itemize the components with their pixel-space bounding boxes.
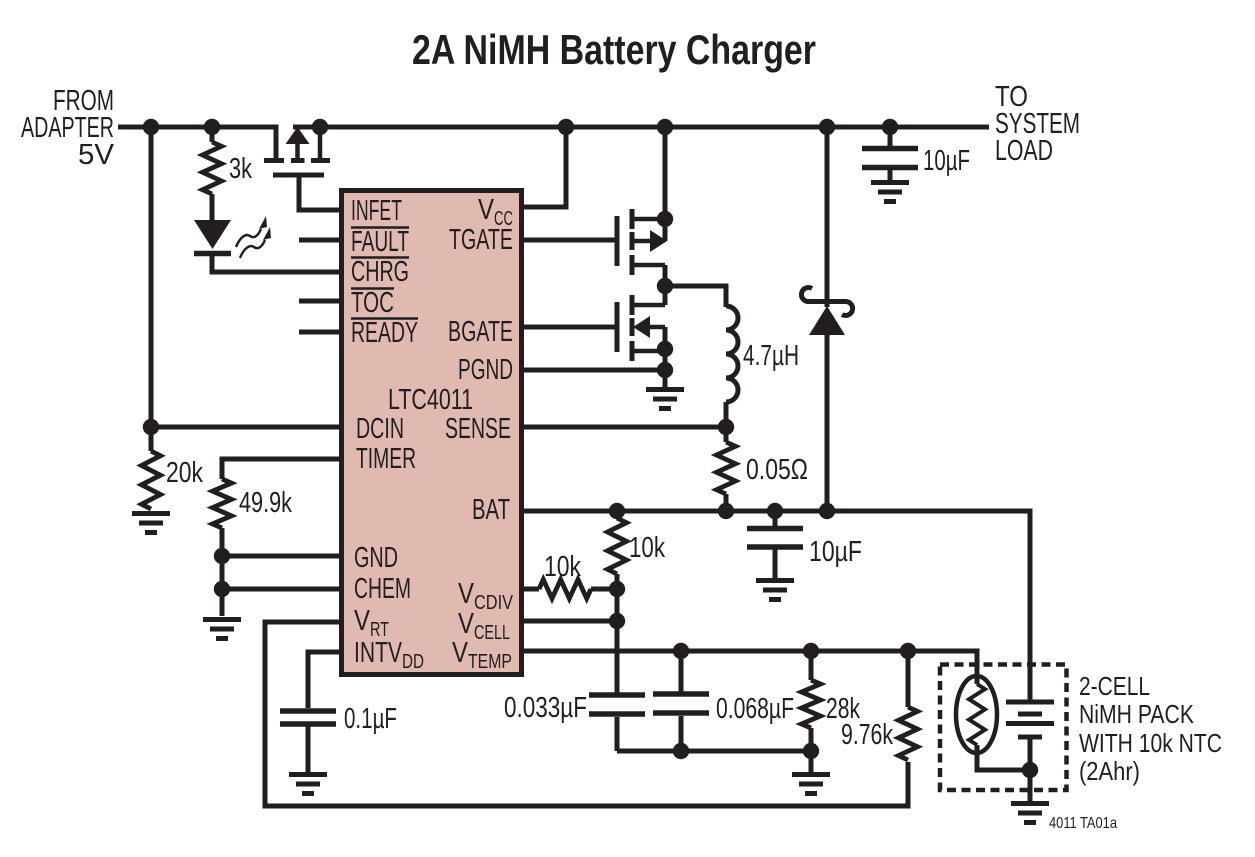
- svg-text:CDIV: CDIV: [474, 592, 514, 614]
- svg-text:9.76k: 9.76k: [841, 719, 893, 751]
- pin label TIMER: [356, 443, 416, 475]
- svg-text:20k: 20k: [166, 457, 203, 489]
- wire TOC stub: [299, 299, 339, 304]
- pin label VTEMP: [452, 637, 512, 673]
- label 0.1uF: [344, 703, 397, 735]
- label 49.9k: [239, 487, 292, 519]
- wire Q1 gate to INFET: [299, 177, 339, 210]
- pin label TGATE: [449, 224, 513, 256]
- pin label GND: [354, 542, 398, 574]
- capacitor 0.068uF: [653, 694, 709, 713]
- svg-text:DCIN: DCIN: [356, 413, 404, 445]
- junction rail 10uF: [882, 119, 898, 135]
- ground 10uF battery: [756, 581, 794, 600]
- wire 0.068uF stubs: [679, 651, 684, 751]
- wire VCC to rail: [523, 127, 566, 207]
- transistor Q1 gate bar: [273, 173, 324, 178]
- svg-text:CHRG: CHRG: [351, 256, 409, 288]
- resistor 49.9k: [213, 479, 232, 528]
- IC U1 LTC4011 body: [342, 191, 522, 675]
- svg-text:INTV: INTV: [354, 637, 402, 669]
- wire 5V input rail right: [293, 125, 989, 130]
- transistor Q1 body arrow: [286, 127, 310, 158]
- label 4011 TA01a: [1049, 815, 1117, 832]
- wire 49.9k bottom to ground: [220, 528, 225, 616]
- pin label VCC: [478, 194, 513, 230]
- wire 0.05 bottom stub: [724, 494, 729, 511]
- svg-text:TEMP: TEMP: [468, 651, 512, 673]
- svg-text:DD: DD: [402, 651, 424, 673]
- junction CHEM ground: [214, 581, 230, 597]
- svg-text:TIMER: TIMER: [356, 443, 416, 475]
- transistor Q2 channel bars: [630, 209, 635, 275]
- wire 3k to LED: [210, 194, 215, 221]
- ground 0.1uF: [289, 775, 327, 794]
- wire 10uF input cap stubs: [888, 127, 893, 180]
- wire 10k divider node: [615, 511, 620, 751]
- wire GND pin: [222, 554, 339, 559]
- wire BGATE to Q3 gate: [523, 325, 615, 330]
- wire INTVDD to 0.1uF: [308, 652, 339, 708]
- label 9.76k: [841, 719, 893, 751]
- svg-text:V: V: [458, 578, 475, 610]
- transistor Q3 source stub: [634, 349, 665, 387]
- junction PGND node: [657, 362, 673, 378]
- svg-text:2-CELL: 2-CELL: [1079, 671, 1150, 701]
- svg-text:READY: READY: [351, 317, 418, 349]
- junction rail VCC: [558, 119, 574, 135]
- capacitor 0.033uF: [589, 695, 645, 714]
- net label FROM ADAPTER 5V: [21, 85, 115, 171]
- net label TO SYSTEM LOAD: [995, 81, 1080, 167]
- junction GND 49.9k: [214, 548, 230, 564]
- wire TGATE to Q2 gate: [523, 238, 615, 243]
- junction SENSE node: [718, 419, 734, 435]
- wire 10uF battery cap stubs: [773, 511, 778, 578]
- junction DCIN 20k: [143, 419, 159, 435]
- label 10k horizontal: [544, 551, 581, 583]
- transistor Q3 channel bars: [630, 295, 635, 361]
- pin label DCIN: [356, 413, 404, 445]
- svg-text:V: V: [458, 608, 475, 640]
- svg-text:V: V: [478, 194, 495, 226]
- battery pack dashed box: [940, 665, 1067, 791]
- svg-text:0.033µF: 0.033µF: [504, 692, 587, 724]
- LED D1 emission arrows: [236, 216, 271, 258]
- wire filter cap bottom bus: [617, 749, 811, 754]
- svg-text:V: V: [354, 605, 371, 637]
- svg-text:LTC4011: LTC4011: [388, 384, 473, 416]
- resistor 28k: [802, 680, 821, 728]
- pin label VCELL: [458, 608, 510, 644]
- inductor 4.7uH: [726, 306, 738, 402]
- junction BAT 10k: [609, 503, 625, 519]
- svg-text:V: V: [452, 637, 469, 669]
- wire VRT return loop: [265, 622, 908, 806]
- pin label SENSE: [445, 413, 511, 445]
- wire 28k stubs: [809, 651, 814, 772]
- label 0.033uF: [504, 692, 587, 724]
- junction SW node: [657, 278, 673, 294]
- ground 28k: [792, 775, 830, 794]
- resistor 0.05 ohm: [717, 442, 736, 494]
- ground Q3 source PGND: [646, 390, 684, 409]
- LED D1 anode triangle: [194, 220, 231, 249]
- capacitor 10uF input: [862, 149, 918, 168]
- svg-text:4011 TA01a: 4011 TA01a: [1049, 815, 1117, 832]
- wire PGND: [523, 368, 665, 373]
- label 10k vertical: [629, 532, 665, 564]
- svg-text:TGATE: TGATE: [449, 224, 513, 256]
- junction cap bus 28k: [803, 743, 819, 759]
- pin label BGATE: [448, 316, 513, 348]
- junction BAT 10uF: [767, 503, 783, 519]
- svg-text:0.1µF: 0.1µF: [344, 703, 397, 735]
- svg-text:0.05Ω: 0.05Ω: [746, 454, 808, 486]
- junction rail DCIN: [143, 119, 159, 135]
- junction battery minus: [1022, 762, 1038, 778]
- transistor Q2 drain line: [663, 127, 668, 241]
- svg-text:CHEM: CHEM: [354, 573, 411, 605]
- svg-text:PGND: PGND: [458, 354, 513, 386]
- wire SENSE: [523, 425, 726, 430]
- junction rail schottky: [819, 119, 835, 135]
- diode D2 schottky cathode bar: [801, 288, 852, 316]
- pin label INTVDD: [354, 637, 424, 673]
- wire inductor to 0.05 sense resistor: [724, 402, 729, 442]
- junction rail Q1 drain: [312, 119, 328, 135]
- wire NTC to battery minus: [977, 745, 1030, 770]
- transistor Q2 drain stub: [634, 217, 665, 222]
- svg-text:10µF: 10µF: [923, 145, 970, 177]
- svg-text:INFET: INFET: [351, 195, 402, 227]
- svg-text:GND: GND: [354, 542, 398, 574]
- svg-text:BAT: BAT: [472, 494, 510, 526]
- transistor Q2 body diode: [634, 230, 667, 252]
- title 2A NiMH Battery Charger: [412, 26, 816, 73]
- svg-text:NiMH PACK: NiMH PACK: [1079, 699, 1195, 729]
- svg-text:TOC: TOC: [351, 287, 394, 319]
- wire LED cathode to CHRG pin: [212, 254, 339, 272]
- capacitor 0.1uF: [280, 711, 336, 724]
- label 2-CELL pack: [1079, 671, 1222, 786]
- transistor Q3 drain stub: [634, 286, 665, 305]
- wire SW node to inductor: [665, 286, 726, 307]
- label 4.7uH: [743, 340, 799, 372]
- pin label INFET: [351, 195, 402, 227]
- IC U1 pin labels: [351, 194, 514, 673]
- wire READY stub: [299, 330, 339, 335]
- junction rail 3k: [204, 119, 220, 135]
- pin label VCDIV: [458, 578, 514, 614]
- wire VCDIV left stub: [523, 587, 539, 592]
- pin label CHRG: [351, 256, 409, 288]
- svg-text:10µF: 10µF: [809, 536, 862, 568]
- pin label VRT: [354, 605, 389, 641]
- svg-text:WITH 10k NTC: WITH 10k NTC: [1079, 728, 1222, 758]
- svg-text:BGATE: BGATE: [448, 316, 513, 348]
- svg-text:CELL: CELL: [474, 622, 510, 644]
- junction BAT 0.05: [718, 503, 734, 519]
- wire 3k top stub: [210, 127, 215, 142]
- junction VCELL node: [609, 613, 625, 629]
- ground 49.9k CHEM: [203, 620, 241, 639]
- resistor 3k: [203, 142, 222, 194]
- ground 20k: [132, 514, 170, 533]
- resistor 20k: [142, 451, 161, 509]
- wire CHEM pin: [222, 587, 339, 592]
- transistor Q3 N-MOSFET gate bar: [615, 302, 620, 352]
- label 28k: [826, 693, 860, 725]
- label 20k: [166, 457, 203, 489]
- capacitor 10uF battery: [747, 529, 803, 548]
- junction VTEMP 0.068uF: [673, 643, 689, 659]
- junction VTEMP 28k: [803, 643, 819, 659]
- wire 5V input rail left + Q1 source drop: [118, 127, 276, 158]
- svg-text:0.068µF: 0.068µF: [716, 693, 794, 725]
- junction VTEMP 9.76k: [900, 643, 916, 659]
- junction rail Q2 drain: [657, 119, 673, 135]
- pin label TOC: [351, 287, 394, 319]
- junction Q3 source: [657, 341, 673, 357]
- transistor Q3 body diode: [633, 316, 665, 349]
- svg-text:49.9k: 49.9k: [239, 487, 292, 519]
- LED D1 cathode bar: [194, 251, 231, 257]
- svg-text:5V: 5V: [78, 139, 115, 171]
- junction cap bus 0.068uF: [673, 743, 689, 759]
- ground 10uF input: [871, 183, 909, 202]
- wire schottky anode to BAT: [825, 334, 830, 511]
- wire TIMER to 49.9k: [222, 459, 339, 479]
- pin label READY: [351, 317, 418, 349]
- label 3k: [229, 153, 252, 185]
- wire 0.1uF to ground: [306, 726, 311, 772]
- wire battery minus to ground: [1028, 737, 1033, 801]
- wire 9.76k top stub: [906, 651, 911, 707]
- wire VCELL: [523, 619, 617, 624]
- transistor Q1 drain stub: [318, 129, 323, 158]
- thermistor NTC ellipse: [956, 676, 997, 753]
- label 0.05 ohm: [746, 454, 808, 486]
- wire schottky cathode to rail: [825, 127, 830, 307]
- junction Q2 drain stub: [657, 211, 673, 227]
- pin label BAT: [472, 494, 510, 526]
- transistor Q1 P-MOSFET channel bars: [264, 158, 330, 163]
- wire DCIN: [151, 425, 339, 430]
- junction BAT schottky: [819, 503, 835, 519]
- resistor 9.76k: [899, 707, 918, 760]
- thermistor NTC zigzag: [969, 684, 985, 745]
- pin label CHEM: [354, 573, 411, 605]
- svg-text:10k: 10k: [629, 532, 665, 564]
- label 10uF battery: [809, 536, 862, 568]
- battery BT1 cells: [1006, 702, 1054, 737]
- resistor 10k horizontal VCDIV: [539, 580, 591, 599]
- wire left rail DCIN drop: [149, 127, 154, 451]
- transistor Q2 N-MOSFET gate bar: [615, 216, 620, 266]
- svg-text:(2Ahr): (2Ahr): [1079, 756, 1140, 786]
- label 0.068uF: [716, 693, 794, 725]
- svg-text:SENSE: SENSE: [445, 413, 511, 445]
- wire VCDIV right stub: [591, 587, 617, 592]
- pin label PGND: [458, 354, 513, 386]
- wire VTEMP to NTC: [523, 651, 977, 684]
- pin label FAULT: [351, 226, 409, 258]
- transistor Q2 source stub: [634, 265, 665, 288]
- wire BAT line: [523, 511, 1030, 701]
- resistor 10k vertical divider: [608, 518, 627, 574]
- ground battery: [1011, 804, 1049, 823]
- svg-text:10k: 10k: [544, 551, 581, 583]
- svg-text:3k: 3k: [229, 153, 252, 185]
- wire FAULT stub: [299, 238, 339, 243]
- svg-text:FAULT: FAULT: [351, 226, 409, 258]
- label 10uF input: [923, 145, 970, 177]
- svg-text:4.7µH: 4.7µH: [743, 340, 799, 372]
- svg-text:2A NiMH Battery Charger: 2A NiMH Battery Charger: [412, 26, 816, 73]
- junction VCDIV node: [609, 581, 625, 597]
- svg-text:LOAD: LOAD: [995, 135, 1053, 167]
- IC name LTC4011: [388, 384, 473, 416]
- diode D2 schottky triangle: [809, 306, 845, 335]
